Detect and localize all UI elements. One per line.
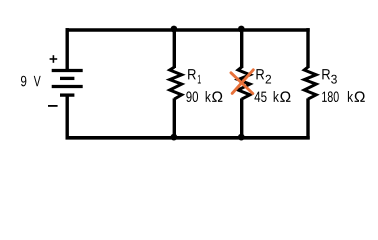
resistor R1 value 90 kΩ <box>186 91 198 102</box>
wire left lower (battery - to bottom rail) <box>65 95 68 139</box>
resistor R1 subscript 1 <box>198 75 201 84</box>
resistor R3 value 180 kΩ <box>322 91 339 102</box>
wire R1 top stem <box>173 30 176 68</box>
wire R2 bottom stem <box>240 98 243 137</box>
resistor R3 zigzag <box>304 67 316 99</box>
wire bottom rail <box>66 136 310 140</box>
wire right upper (top rail to R3) <box>306 28 309 68</box>
resistor R1 label <box>188 69 196 79</box>
wire R1 bottom stem <box>173 98 176 137</box>
battery minus sign <box>48 105 58 107</box>
battery value label 9 V <box>21 76 26 87</box>
fault mark orange X over R2 <box>231 70 253 94</box>
battery plus sign <box>50 55 58 63</box>
resistor R3 subscript 3 <box>331 75 337 84</box>
resistor R2 subscript 2 <box>266 75 271 84</box>
wire left upper (top rail to battery +) <box>65 28 68 70</box>
wire right lower (R3 to bottom rail) <box>306 98 309 139</box>
resistor R2 value 45 kΩ <box>254 92 266 102</box>
node junction R2 top <box>238 26 245 33</box>
resistor R2 zigzag <box>238 67 250 99</box>
wire top rail <box>66 28 310 32</box>
resistor R1 zigzag <box>170 67 182 99</box>
battery V1 plates <box>52 71 83 96</box>
node junction R1 bottom <box>171 134 178 141</box>
node junction R2 bottom <box>238 134 245 141</box>
resistor R3 label <box>322 69 330 79</box>
wire R2 top stem <box>240 30 243 68</box>
node junction R1 top <box>171 26 178 33</box>
resistor R2 label <box>256 69 264 79</box>
